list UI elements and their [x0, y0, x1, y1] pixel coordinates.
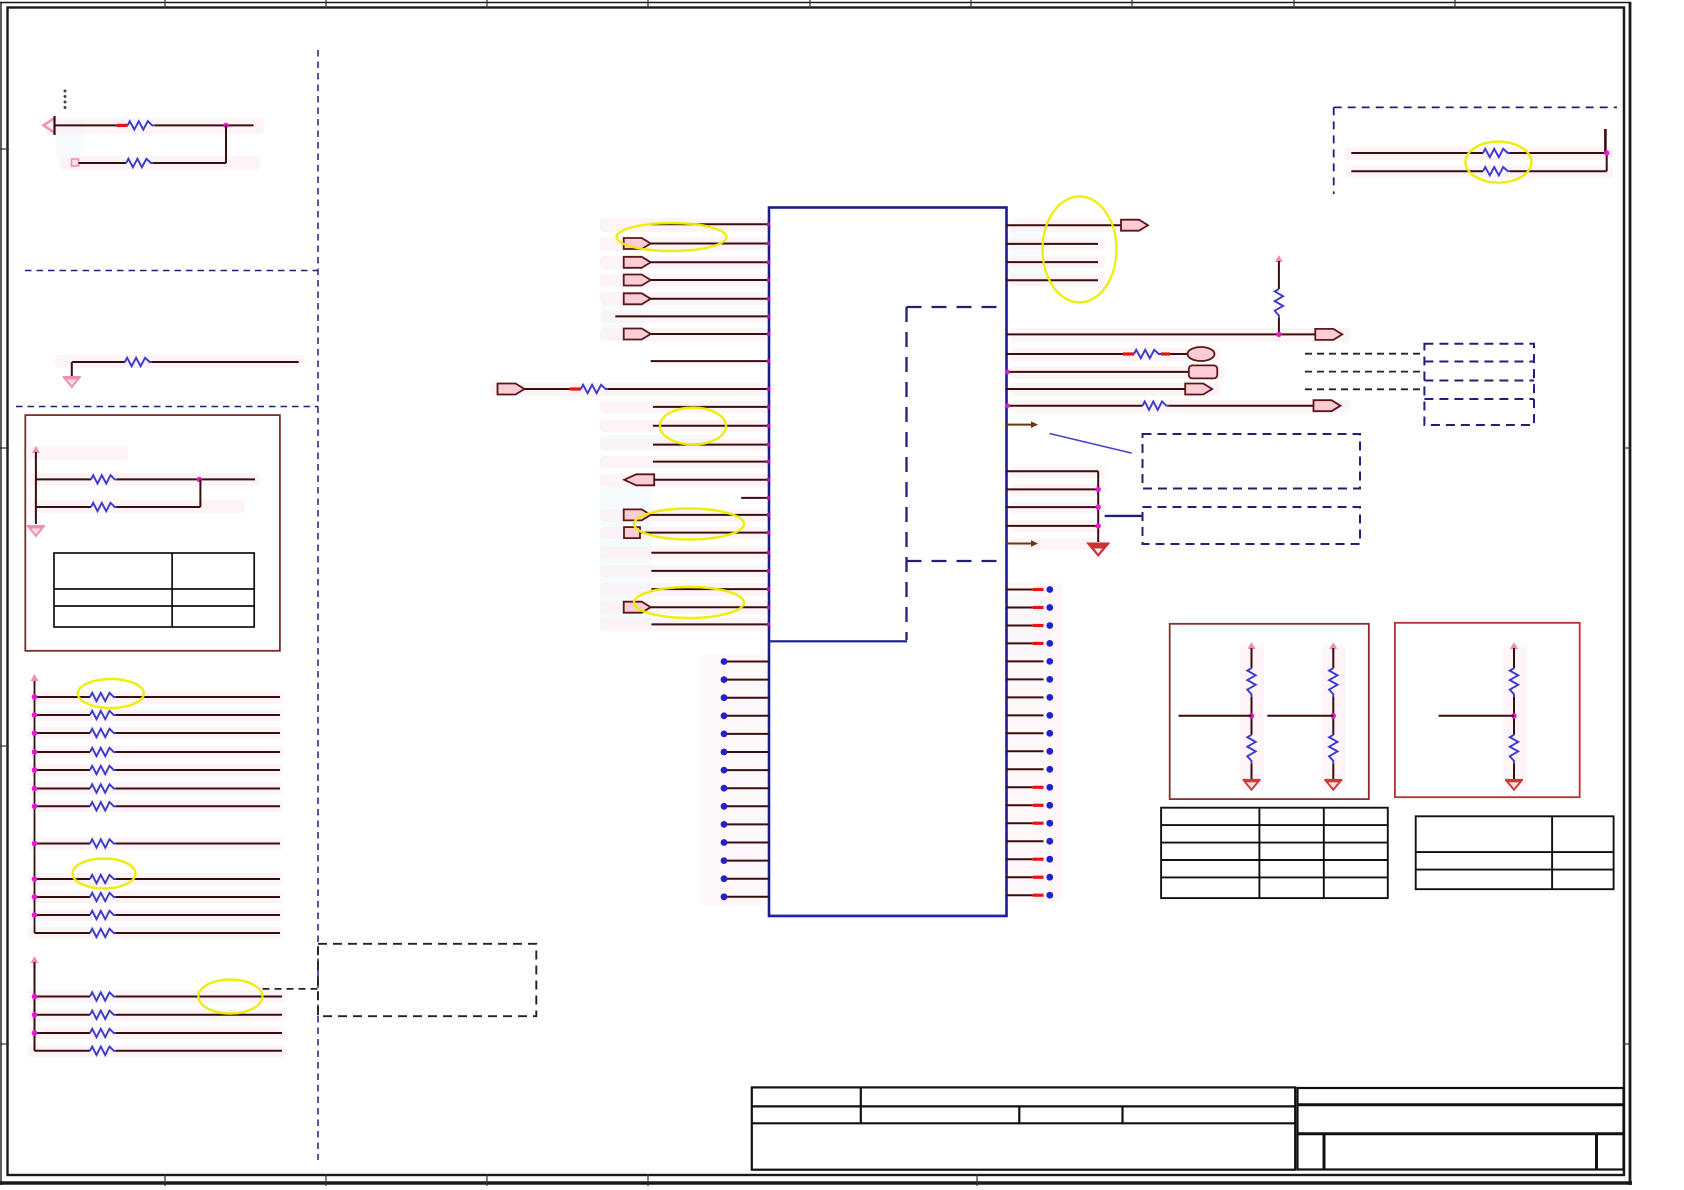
node junction	[32, 994, 38, 1000]
resistor R9	[90, 748, 116, 756]
no-connect pin wire	[1006, 804, 1033, 806]
red marker segment	[1033, 858, 1044, 861]
no-connect pin wire	[1006, 876, 1033, 878]
resistor R17	[90, 929, 116, 937]
pin node	[767, 242, 771, 246]
wire row	[35, 805, 91, 807]
red marker segment	[1033, 876, 1044, 879]
wire row	[35, 914, 91, 916]
wire row	[35, 843, 91, 845]
scan halo tint	[56, 120, 1052, 656]
port pin4	[624, 275, 651, 286]
table (notes)	[54, 553, 254, 627]
blue terminal dot	[721, 893, 728, 900]
wire	[1332, 648, 1334, 668]
blue terminal dot	[721, 676, 728, 683]
highlight ellipse	[78, 679, 144, 708]
port pin2	[624, 238, 651, 249]
power symbol	[1248, 642, 1256, 654]
IC internal divider	[769, 640, 907, 642]
resistor R11	[90, 784, 116, 792]
resistor R2	[126, 159, 153, 167]
no-connect pin wire	[726, 697, 769, 699]
node junction	[32, 841, 38, 847]
port pin9	[498, 384, 525, 395]
node junction	[32, 749, 38, 755]
dashed annotation outline	[1334, 107, 1617, 194]
node junction	[32, 804, 38, 810]
pin stub with arrow	[1006, 421, 1038, 428]
highlight ellipse	[634, 509, 744, 540]
node junction	[1249, 713, 1254, 718]
wire	[1332, 697, 1334, 735]
node junction	[1604, 150, 1609, 155]
wire	[1006, 506, 1098, 508]
red marker segment	[1123, 352, 1134, 355]
wire	[152, 361, 299, 363]
wire	[199, 479, 201, 507]
dashed net link	[1305, 353, 1424, 355]
wire	[155, 124, 254, 126]
blue terminal dot	[1046, 676, 1053, 683]
wire	[1006, 333, 1315, 335]
port pin17 (box)	[624, 527, 640, 538]
wire	[608, 388, 769, 390]
no-connect pin wire	[1006, 678, 1044, 680]
wire pin8	[651, 360, 769, 362]
wire row	[35, 996, 91, 998]
wire	[72, 361, 125, 363]
red marker segment	[1033, 606, 1044, 609]
highlight ellipse	[617, 223, 727, 251]
wire	[1513, 763, 1515, 779]
group box (dark red)	[25, 415, 280, 651]
port out4 (tag)	[1189, 365, 1218, 378]
highlight ellipse	[198, 980, 262, 1014]
dashed annotation box	[1143, 434, 1361, 489]
blue terminal dot	[1046, 838, 1053, 845]
no-connect pin wire	[726, 661, 769, 663]
no-connect pin wire	[1006, 822, 1033, 824]
node junction	[32, 786, 38, 792]
blue terminal dot	[721, 731, 728, 738]
pin node	[767, 405, 771, 409]
wire row	[35, 696, 91, 698]
pin stub square	[72, 159, 79, 166]
node junction	[197, 477, 202, 482]
wire row	[35, 732, 91, 734]
wire	[651, 514, 769, 516]
dashed net table	[1424, 344, 1534, 425]
port pin14 (left arrow)	[624, 474, 654, 485]
wire	[1351, 152, 1483, 154]
resistor R16	[90, 911, 116, 919]
title block left	[752, 1087, 1295, 1169]
ground	[63, 377, 81, 387]
wire pin18	[651, 552, 769, 554]
highlight ellipse	[660, 408, 726, 445]
wire pin15	[741, 497, 769, 499]
ground	[1324, 780, 1342, 790]
port out3 (oval)	[1188, 347, 1215, 361]
power symbol	[31, 956, 39, 968]
node junction	[32, 767, 38, 773]
wire	[36, 506, 91, 508]
resistor (vertical)	[1329, 735, 1337, 764]
resistor (vertical)	[1247, 735, 1255, 764]
resistor R26	[1483, 149, 1510, 157]
pin node	[767, 496, 771, 500]
wire	[1510, 152, 1607, 154]
wire	[525, 388, 570, 390]
pin node	[767, 531, 771, 535]
dashed net link	[1305, 371, 1424, 373]
no-connect pin wire	[1006, 625, 1033, 627]
node junction	[32, 694, 38, 700]
red marker segment	[117, 124, 128, 127]
resistor (vertical)	[1247, 668, 1255, 697]
wire pin11	[653, 425, 769, 427]
pin node	[767, 569, 771, 573]
pin node	[767, 260, 771, 264]
wire	[1169, 405, 1314, 407]
node junction	[1331, 713, 1336, 718]
wire pin19	[651, 570, 769, 572]
port pin3	[624, 257, 651, 268]
port pin21	[624, 602, 651, 613]
blue terminal dot	[1046, 766, 1053, 773]
resistor R13	[90, 839, 116, 847]
wire	[651, 279, 769, 281]
red marker segment	[1033, 822, 1044, 825]
wire row	[35, 1050, 91, 1052]
wire row	[35, 878, 91, 880]
wire	[1278, 261, 1280, 289]
resistor R22	[581, 385, 608, 393]
wire	[225, 125, 227, 163]
wire	[117, 478, 255, 480]
resistor (vertical)	[1510, 668, 1518, 697]
node junction	[32, 712, 38, 718]
wire	[71, 362, 73, 376]
wire	[153, 162, 226, 164]
blue terminal dot	[1046, 586, 1053, 593]
blue terminal dot	[1046, 802, 1053, 809]
wire	[1006, 488, 1098, 490]
wire link (navy)	[1105, 515, 1143, 517]
resistor R10	[90, 766, 116, 774]
red marker segment	[1033, 642, 1044, 645]
no-connect pin wire	[726, 878, 769, 880]
pin node	[767, 278, 771, 282]
node junction	[32, 1012, 38, 1018]
blue terminal dot	[1046, 604, 1053, 611]
no-connect pin wire	[1006, 894, 1033, 896]
wire	[1332, 763, 1334, 779]
resistor R7	[90, 711, 116, 719]
wire bus vertical	[34, 962, 36, 1051]
blue terminal dot	[1046, 784, 1053, 791]
group box (dark red)	[1170, 624, 1369, 799]
blue terminal dot	[721, 875, 728, 882]
wire	[117, 506, 200, 508]
power symbol	[1275, 255, 1283, 267]
wire bus vertical	[1097, 471, 1099, 542]
blue terminal dot	[721, 821, 728, 828]
no-connect pin wire	[1006, 732, 1044, 734]
red marker segment	[1033, 588, 1044, 591]
pin node	[767, 622, 771, 626]
red marker segment	[1033, 786, 1044, 789]
wire row	[35, 751, 91, 753]
dotted mark	[64, 90, 67, 110]
pin node	[1005, 370, 1010, 375]
no-connect pin wire	[1006, 607, 1033, 609]
blue terminal dot	[1046, 874, 1053, 881]
no-connect pin wire	[1006, 589, 1033, 591]
title block right	[1298, 1088, 1624, 1170]
dashed pointer	[263, 988, 319, 990]
dashed divider line y=406	[16, 406, 318, 408]
blue terminal dot	[721, 785, 728, 792]
pin node	[767, 587, 771, 591]
pin node	[767, 424, 771, 428]
no-connect pin wire	[726, 842, 769, 844]
annotation pointer line	[1049, 434, 1131, 454]
wire	[1006, 470, 1098, 472]
scan halo tint 2	[28, 118, 1613, 1057]
resistor R5	[91, 503, 117, 511]
group box (red)	[1395, 623, 1580, 797]
port out6	[1314, 400, 1341, 411]
node junction	[1096, 504, 1101, 509]
no-connect pin wire	[1006, 858, 1033, 860]
node junction	[32, 912, 38, 918]
resistor R14	[90, 875, 116, 883]
wire	[1351, 170, 1483, 172]
resistor R4	[91, 475, 117, 483]
blue terminal dot	[721, 658, 728, 665]
pin node	[767, 478, 771, 482]
wire	[651, 333, 769, 335]
power symbol	[32, 446, 40, 458]
wire	[651, 606, 769, 608]
wire	[1513, 697, 1515, 735]
power symbol	[31, 674, 39, 686]
blue terminal dot	[721, 767, 728, 774]
no-connect pin wire	[726, 805, 769, 807]
node junction	[32, 894, 38, 900]
node junction	[1096, 487, 1101, 492]
pin node	[767, 297, 771, 301]
dashed annotation box	[1143, 507, 1361, 544]
resistor R19	[90, 1011, 116, 1019]
wire row	[35, 1032, 91, 1034]
wire	[1439, 715, 1514, 717]
port pin7	[624, 329, 651, 340]
wire	[1513, 648, 1515, 668]
resistor (vertical)	[1510, 735, 1518, 764]
no-connect pin wire	[1006, 750, 1044, 752]
table (options)	[1416, 816, 1614, 889]
pin node	[767, 513, 771, 517]
wire	[36, 478, 91, 480]
blue terminal dot	[1046, 694, 1053, 701]
power symbol	[1329, 642, 1337, 654]
wire	[1006, 525, 1098, 527]
no-connect pin wire	[726, 823, 769, 825]
pin node	[767, 551, 771, 555]
resistor R21	[90, 1047, 116, 1055]
node junction	[32, 1030, 38, 1036]
pin node	[1005, 403, 1010, 408]
blue terminal dot	[721, 749, 728, 756]
no-connect pin wire	[726, 715, 769, 717]
port P1 (left arrow)	[44, 116, 55, 135]
blue terminal dot	[1046, 820, 1053, 827]
no-connect pin wire	[1006, 786, 1033, 788]
wire	[1006, 224, 1121, 226]
dashed divider line vertical x=318	[317, 50, 319, 1160]
blue terminal dot	[1046, 748, 1053, 755]
wire row	[35, 714, 91, 716]
node junction	[1276, 332, 1281, 337]
wire	[1006, 405, 1143, 407]
wire row	[35, 896, 91, 898]
resistor R1	[128, 121, 155, 129]
red marker segment	[1033, 894, 1044, 897]
node junction	[223, 123, 228, 128]
red marker segment	[570, 387, 581, 390]
wire pin6	[615, 315, 769, 317]
blue terminal dot	[721, 839, 728, 846]
wire	[1251, 763, 1253, 779]
wire	[651, 261, 769, 263]
port pin5	[624, 293, 651, 304]
wire pin1	[651, 223, 769, 225]
blue terminal dot	[1046, 658, 1053, 665]
highlight ellipse	[73, 859, 136, 889]
resistor R8	[90, 729, 116, 737]
table (pin summary)	[1161, 808, 1388, 898]
wire row	[35, 932, 91, 934]
pin node	[767, 387, 771, 391]
resistor R3	[125, 358, 152, 366]
wire row	[35, 1014, 91, 1016]
ground (filled)	[1086, 543, 1111, 558]
wire bus	[35, 452, 37, 524]
no-connect pin wire	[1006, 642, 1033, 644]
wire	[1606, 153, 1608, 171]
port out5	[1185, 384, 1212, 395]
blue terminal dot	[1046, 892, 1053, 899]
resistor (vertical)	[1329, 668, 1337, 697]
wire	[1251, 648, 1253, 668]
wire	[1006, 243, 1098, 245]
resistor R23 (vertical)	[1275, 289, 1283, 318]
resistor R18	[90, 992, 116, 1000]
red marker segment	[1161, 352, 1170, 355]
wire	[79, 162, 127, 164]
highlight ellipse	[1465, 142, 1531, 183]
no-connect pin wire	[726, 679, 769, 681]
wire	[1006, 261, 1098, 263]
pin node	[767, 460, 771, 464]
red marker segment	[1033, 804, 1044, 807]
wire bus vertical	[34, 681, 36, 933]
highlight ellipse	[1043, 196, 1117, 302]
dashed divider line y=270	[25, 270, 318, 272]
resistor R24	[1134, 350, 1161, 358]
wire	[1510, 170, 1607, 172]
wire stub	[1604, 129, 1607, 153]
no-connect pin wire	[726, 769, 769, 771]
node junction	[32, 876, 38, 882]
wire	[651, 298, 769, 300]
port out1	[1121, 220, 1148, 231]
blue terminal dot	[721, 857, 728, 864]
no-connect pin wire	[1006, 714, 1044, 716]
wire	[640, 532, 769, 534]
blue terminal dot	[1046, 622, 1053, 629]
no-connect pin wire	[1006, 696, 1044, 698]
wire	[1179, 715, 1252, 717]
blue terminal dot	[721, 712, 728, 719]
node junction	[1096, 523, 1101, 528]
port pin16	[624, 509, 651, 520]
wire pin13	[653, 461, 769, 463]
blue terminal dot	[1046, 712, 1053, 719]
blue terminal dot	[1046, 856, 1053, 863]
pin node	[767, 222, 771, 226]
dashed annotation box	[318, 944, 536, 1016]
pin node	[767, 359, 771, 363]
highlight ellipse	[634, 587, 744, 618]
dashed net link	[1305, 388, 1424, 390]
no-connect pin wire	[726, 751, 769, 753]
no-connect pin wire	[726, 787, 769, 789]
resistor R15	[90, 893, 116, 901]
wire	[1278, 318, 1280, 334]
resistor R20	[90, 1029, 116, 1037]
wire row	[35, 769, 91, 771]
wire row	[35, 788, 91, 790]
no-connect pin wire	[726, 733, 769, 735]
node junction	[1511, 713, 1516, 718]
no-connect pin wire	[726, 860, 769, 862]
no-connect pin wire	[726, 896, 769, 898]
wire pin22	[651, 623, 769, 625]
pin stub with arrow	[1006, 540, 1038, 547]
resistor R6	[90, 693, 116, 701]
node junction	[32, 730, 38, 736]
ground	[1505, 780, 1523, 790]
ground	[1243, 780, 1261, 790]
blue terminal dot	[1046, 730, 1053, 737]
wire	[1006, 353, 1123, 355]
no-connect pin wire	[1006, 840, 1044, 842]
wire	[1006, 388, 1185, 390]
wire	[654, 479, 769, 481]
blue terminal dot	[721, 694, 728, 701]
pin node	[767, 605, 771, 609]
no-connect pin wire	[1006, 768, 1044, 770]
power symbol	[1510, 642, 1518, 654]
wire	[1170, 353, 1189, 355]
wire pin10	[653, 406, 769, 408]
resistor R27	[1483, 167, 1510, 175]
pin node	[767, 314, 771, 318]
